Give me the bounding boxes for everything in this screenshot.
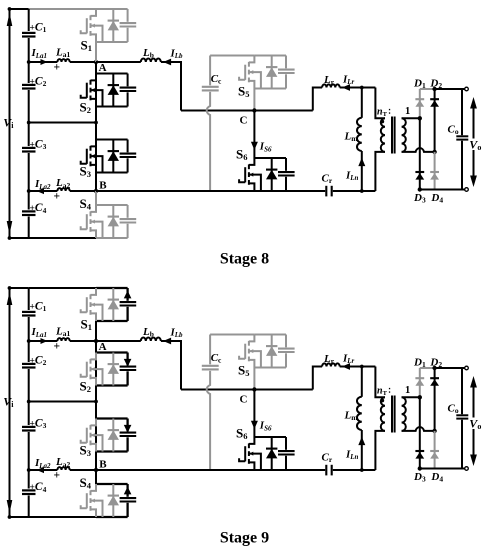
transistor S2 MOSFET body — [91, 74, 97, 81]
wire: Cc branch upper — [209, 56, 211, 86]
snubber capacitor of S2 — [127, 74, 129, 87]
wire: node C to S6 drain — [253, 111, 255, 159]
snubber capacitor of S5 — [285, 56, 287, 69]
wire: mid rail — [29, 401, 96, 403]
wire: drain rail of S4 — [96, 204, 128, 206]
wire: drain rail of S4 — [96, 483, 128, 485]
diode D1 — [415, 98, 424, 100]
node: Lm bottom junction — [360, 189, 364, 193]
inductor Lm — [357, 397, 362, 430]
gate lead of S4 — [81, 226, 87, 229]
wire: La1 to node A — [70, 340, 96, 342]
body diode of S6 — [271, 437, 273, 470]
output terminal bottom — [465, 467, 469, 471]
capacitor C4 — [22, 489, 36, 491]
wire: bridge top rail gray part — [420, 88, 435, 90]
body/source stub of S2 — [91, 369, 103, 385]
svg-text:1: 1 — [405, 106, 410, 117]
capacitor C4 — [22, 210, 36, 212]
node: D2 top junction — [432, 366, 436, 370]
snubber capacitor of S6 — [285, 158, 287, 171]
transformer core — [391, 396, 393, 433]
body/source stub of S2 — [91, 90, 103, 106]
capacitor C2 — [22, 363, 36, 365]
wire: secondary top lead — [402, 117, 420, 119]
node B — [94, 189, 98, 193]
circuit schematic: stage 8 — [3, 7, 481, 268]
node on bus at B row — [27, 468, 31, 472]
inductor Lb — [141, 338, 161, 342]
wire: La2 row — [29, 190, 58, 192]
transformer secondary winding — [402, 118, 406, 152]
body diode of S4 — [112, 484, 114, 517]
wire: bridge bottom rail — [420, 468, 465, 470]
Vi down arrow — [7, 221, 13, 235]
gate lead of S6 — [239, 179, 245, 182]
transistor S1 MOSFET body — [91, 288, 97, 295]
wire: drain rail of S5 — [254, 334, 286, 336]
capacitor C1 — [22, 32, 36, 34]
node on bus at mid rail — [27, 121, 31, 125]
node on bus at A row — [27, 60, 31, 64]
node on bus at mid rail — [27, 400, 31, 404]
node: top-left corner — [8, 7, 12, 11]
transformer primary winding — [375, 367, 385, 398]
node: D2 top junction — [432, 87, 436, 91]
wire: Lm branch upper — [361, 88, 363, 118]
source lead of S4 — [91, 509, 97, 517]
svg-text:Stage 8: Stage 8 — [220, 251, 269, 268]
capacitor Cr — [325, 186, 327, 197]
wire: secondary bottom lead with hop over D1 branch — [402, 427, 435, 431]
diode D3 — [415, 171, 424, 173]
wire: bridge top rail gray part — [420, 367, 435, 369]
wire: source rail of S1 — [96, 41, 128, 43]
wire: Cc branch lower with hop over C row — [207, 92, 210, 191]
source lead of S6 — [249, 183, 255, 191]
node C — [252, 387, 256, 391]
svg-text:B: B — [99, 179, 107, 191]
current arrow ILn — [358, 437, 365, 445]
transistor S4 MOSFET body — [91, 205, 97, 212]
source lead of S5 — [249, 81, 255, 89]
svg-text:C: C — [240, 393, 248, 405]
current arrow ILa1 — [41, 59, 48, 65]
gate lead of S1 — [81, 309, 87, 312]
wire: drain rail of S1 — [96, 8, 128, 10]
body/source stub of S1 — [91, 305, 103, 321]
node at switch leg mid — [94, 400, 98, 404]
body/source stub of S3 — [91, 156, 103, 172]
wire: source rail of S5 — [254, 88, 286, 90]
wire: Co branch — [461, 368, 463, 469]
gate lead of S5 — [239, 77, 245, 80]
wire: mid rail — [29, 122, 96, 124]
wire: node A to Lb — [96, 340, 141, 342]
gate lead of S3 — [81, 440, 87, 443]
svg-text:C: C — [240, 114, 248, 126]
source lead of S6 — [249, 462, 255, 470]
node C — [252, 108, 256, 112]
wire: switch leg A to B — [95, 62, 97, 191]
wire: La1 row — [29, 340, 58, 342]
wire: drain rail of S5 — [254, 55, 286, 57]
svg-text:B: B — [99, 458, 107, 470]
node on bus at A row — [27, 339, 31, 343]
current arrow ILa2 — [37, 467, 45, 473]
wire: Lr to primary corner — [340, 366, 376, 368]
source lead of S4 — [91, 230, 97, 238]
diode D4 — [430, 171, 439, 173]
transformer primary winding — [375, 88, 385, 119]
current arrow IS6 — [251, 421, 258, 429]
snubber capacitor of S4 — [126, 484, 128, 497]
transistor S2 MOSFET body — [91, 353, 97, 360]
node on bus at B row — [27, 189, 31, 193]
current arrow ILb — [163, 59, 171, 66]
wire: C row corner up to Lr — [313, 367, 322, 390]
wire: D1 branch upper (gray) — [419, 368, 421, 397]
capacitor Cc — [202, 365, 219, 367]
wire: top rail left — [10, 287, 29, 289]
transistor S6 MOSFET body — [249, 437, 255, 444]
body/source stub of S5 — [249, 72, 261, 88]
wire: D1/D3 branch lower — [419, 118, 421, 189]
snubber capacitor of S6 — [285, 437, 287, 450]
transformer core — [391, 117, 393, 154]
wire: switch leg A to B — [95, 341, 97, 470]
current arrow ILa1 — [41, 338, 48, 344]
wire: S5 source leg to node C — [253, 368, 255, 390]
wire: D2/D4 branch lower (gray) — [434, 152, 436, 190]
body diode of S1 — [112, 288, 114, 321]
body diode of S4 — [112, 205, 114, 238]
Vi up arrow — [7, 13, 13, 27]
svg-text:A: A — [99, 62, 107, 74]
wire: top rail left — [10, 8, 29, 10]
body diode of S2 — [112, 74, 114, 107]
inductor Lr — [322, 84, 340, 87]
wire: La2 to node B — [70, 190, 96, 192]
wire: source rail of S4 — [96, 516, 128, 518]
node: D3 bottom junction — [418, 466, 422, 470]
wire: Lb to corner then down to C row — [161, 341, 181, 390]
wire: bottom row B to Cr — [96, 190, 325, 192]
wire: S5 top rail — [210, 334, 254, 336]
wire: capacitor bus — [28, 9, 30, 238]
wire: drain rail of S2 — [96, 73, 128, 75]
current arrow ILa2 — [37, 188, 45, 194]
capacitor Cr — [325, 465, 327, 476]
source lead of S1 — [91, 313, 97, 321]
wire: C row corner up to Lr — [313, 88, 322, 111]
transistor S3 MOSFET body — [91, 419, 97, 426]
output terminal bottom — [465, 188, 469, 192]
body diode of S1 — [112, 9, 114, 42]
snubber capacitor of S3 — [127, 140, 129, 153]
wire: drain rail of S3 — [96, 417, 128, 419]
node: Lm bottom junction — [360, 468, 364, 472]
transformer primary dot — [380, 120, 384, 124]
wire: C row — [181, 389, 313, 391]
wire: source rail of S6 — [254, 190, 286, 192]
wire: Cr to primary return — [333, 190, 376, 192]
current arrow ILr — [342, 363, 350, 370]
node B — [94, 468, 98, 472]
wire: source rail of S1 — [96, 320, 128, 322]
wire: Lb to corner then down to C row — [161, 62, 181, 111]
inductor La2 — [57, 467, 69, 470]
transformer primary dot — [380, 399, 384, 403]
capacitor current arrow of S4 (up) — [124, 487, 132, 495]
wire: La1 to node A — [70, 61, 96, 63]
wire: S5 source leg to node C — [253, 89, 255, 111]
wire: Lm branch lower — [361, 151, 363, 191]
inductor La1 — [57, 338, 69, 341]
body diode of S3 — [112, 140, 114, 173]
gate lead of S2 — [81, 95, 87, 98]
body/source stub of S1 — [91, 26, 103, 42]
node A — [94, 339, 98, 343]
svg-text:+: + — [54, 470, 61, 482]
body diode of S2 — [112, 353, 114, 386]
wire: C row — [181, 110, 313, 112]
capacitor current arrow of S3 (down) — [124, 425, 132, 433]
transistor S1 MOSFET body — [91, 9, 97, 16]
gate lead of S6 — [239, 458, 245, 461]
wire: top rail to S1 — [29, 8, 96, 10]
source lead of S3 — [91, 165, 97, 173]
circuit schematic: stage 9 — [3, 286, 481, 546]
wire: Lr to primary corner — [340, 87, 376, 89]
gate lead of S1 — [81, 30, 87, 33]
snubber capacitor of S3 — [126, 419, 128, 432]
source lead of S3 — [91, 444, 97, 452]
wire: D2 branch upper — [434, 89, 436, 152]
capacitor Co — [456, 414, 468, 416]
gate lead of S5 — [239, 356, 245, 359]
transistor S5 MOSFET body — [249, 56, 255, 63]
node: bottom-left corner — [8, 515, 12, 519]
wire: source rail of S2 — [96, 384, 128, 386]
current arrow IS6 — [251, 142, 258, 150]
wire: drain rail of S3 — [96, 139, 128, 141]
node: secondary bottom to D branch — [432, 429, 436, 433]
wire: secondary top lead — [402, 396, 420, 398]
node: secondary top to D branch — [418, 395, 422, 399]
node: Lm top junction — [360, 365, 364, 369]
current arrow ILr — [342, 84, 350, 91]
wire: source rail of S2 — [96, 106, 128, 108]
body/source stub of S6 — [249, 175, 261, 191]
Vi up arrow — [7, 292, 13, 306]
wire: source rail of S3 — [96, 450, 128, 452]
wire: top rail to S1 — [29, 287, 96, 289]
voltage arrow Vo — [473, 104, 475, 181]
wire: drain rail of S1 — [96, 287, 128, 289]
capacitor current arrow of S1 (up) — [124, 291, 132, 299]
body diode of S3 — [112, 419, 114, 452]
wire: drain rail of S6 — [254, 436, 286, 438]
wire: bottom row B to Cr — [96, 469, 325, 471]
wire: Lm branch lower — [361, 430, 363, 470]
wire: D2 branch upper — [434, 368, 436, 431]
wire: S1 source leg — [95, 321, 97, 341]
gate lead of S2 — [81, 374, 87, 377]
source lead of S1 — [91, 34, 97, 42]
current arrow ILb — [163, 338, 171, 345]
inductor La2 — [57, 188, 69, 191]
wire: bridge top rail to output — [435, 367, 465, 369]
voltage source Vi line (stage 9) — [9, 288, 11, 517]
wire: node C to S6 drain — [253, 390, 255, 438]
output terminal top — [465, 87, 469, 91]
wire: Lm branch upper — [361, 367, 363, 397]
wire: capacitor bus — [28, 288, 30, 517]
capacitor C2 — [22, 84, 36, 86]
node A — [94, 60, 98, 64]
wire: source rail of S4 — [96, 237, 128, 239]
svg-text:Stage 9: Stage 9 — [220, 530, 269, 547]
capacitor current arrow of S2 (down) — [124, 359, 132, 367]
svg-text:1: 1 — [405, 385, 410, 396]
node: D3 bottom junction — [418, 187, 422, 191]
svg-text:+: + — [54, 191, 61, 203]
output terminal top — [465, 366, 469, 370]
wire: D1/D3 branch lower — [419, 397, 421, 468]
wire: bottom rail — [10, 516, 97, 518]
wire: La2 to node B — [70, 469, 96, 471]
node: secondary bottom to D branch — [432, 150, 436, 154]
source lead of S2 — [91, 378, 97, 386]
body diode of S5 — [271, 335, 273, 368]
wire: D2/D4 branch lower (gray) — [434, 431, 436, 469]
diode D2 — [430, 98, 439, 100]
svg-text:+: + — [54, 341, 61, 353]
diode D2 — [430, 377, 439, 379]
node at switch leg mid — [94, 121, 98, 125]
snubber capacitor of S2 — [126, 353, 128, 366]
capacitor Cc — [202, 86, 219, 88]
snubber capacitor of S1 — [127, 9, 129, 22]
diode D4 — [430, 450, 439, 452]
node: top-left corner — [8, 286, 12, 290]
inductor Lm — [357, 118, 362, 151]
wire: node A to Lb — [96, 61, 141, 63]
capacitor C3 — [22, 147, 36, 149]
wire: Cr to primary return — [333, 469, 376, 471]
wire: drain rail of S6 — [254, 157, 286, 159]
svg-text:+: + — [54, 62, 61, 74]
capacitor Co — [456, 135, 468, 137]
wire: secondary bottom lead with hop over D1 branch — [402, 148, 435, 152]
svg-text:A: A — [99, 341, 107, 353]
body diode of S6 — [271, 158, 273, 191]
transistor S4 MOSFET body — [91, 484, 97, 491]
wire: Cc branch lower with hop over C row — [207, 371, 210, 470]
wire: La1 row — [29, 61, 58, 63]
transistor S3 MOSFET body — [91, 140, 97, 147]
voltage source Vi line (stage 8) — [9, 9, 11, 238]
wire: S4 drain leg — [95, 470, 97, 484]
source lead of S2 — [91, 99, 97, 107]
wire: source rail of S5 — [254, 367, 286, 369]
body/source stub of S6 — [249, 454, 261, 470]
capacitor C1 — [22, 311, 36, 313]
inductor Lb — [141, 59, 161, 62]
snubber capacitor of S4 — [127, 205, 129, 218]
inductor La1 — [57, 59, 69, 62]
body/source stub of S4 — [91, 222, 103, 238]
current arrow ILn — [358, 158, 365, 166]
body diode of S5 — [271, 56, 273, 89]
wire: bottom rail — [10, 237, 97, 239]
diode D3 — [415, 450, 424, 452]
gate lead of S4 — [81, 505, 87, 508]
wire: La2 row — [29, 469, 58, 471]
snubber capacitor of S1 — [126, 288, 128, 301]
wire: source rail of S6 — [254, 469, 286, 471]
wire: drain rail of S2 — [96, 351, 128, 353]
wire: S4 drain leg — [95, 191, 97, 205]
node: secondary top to D branch — [418, 116, 422, 120]
body/source stub of S3 — [91, 435, 103, 451]
wire: D1 branch upper (gray) — [419, 89, 421, 118]
diode D1 — [415, 377, 424, 379]
wire: Co branch — [461, 89, 463, 190]
wire: Cc branch upper — [209, 335, 211, 365]
body/source stub of S5 — [249, 351, 261, 367]
node: Lm top junction — [360, 86, 364, 90]
transistor S6 MOSFET body — [249, 158, 255, 165]
transformer secondary winding — [402, 397, 406, 431]
voltage arrow Vo — [473, 383, 475, 460]
Vi down arrow — [7, 500, 13, 514]
wire: S1 source leg — [95, 42, 97, 62]
wire: bridge top rail to output — [435, 88, 465, 90]
gate lead of S3 — [81, 161, 87, 164]
wire: bridge bottom rail — [420, 189, 465, 191]
wire: S5 top rail — [210, 55, 254, 57]
body/source stub of S4 — [91, 501, 103, 517]
capacitor C3 — [22, 426, 36, 428]
source lead of S5 — [249, 360, 255, 368]
node: bottom-left corner — [8, 236, 12, 240]
snubber capacitor of S5 — [285, 335, 287, 348]
wire: source rail of S3 — [96, 172, 128, 174]
inductor Lr — [322, 363, 340, 366]
transistor S5 MOSFET body — [249, 335, 255, 342]
